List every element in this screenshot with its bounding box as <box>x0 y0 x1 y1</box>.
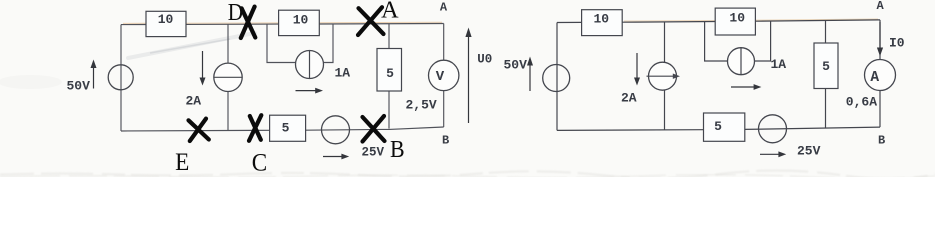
svg-text:2,5V: 2,5V <box>406 98 437 113</box>
svg-text:1A: 1A <box>335 66 351 81</box>
svg-text:10: 10 <box>158 12 174 27</box>
svg-text:D: D <box>228 0 243 26</box>
svg-text:50V: 50V <box>67 79 91 94</box>
svg-text:5: 5 <box>386 66 394 81</box>
svg-text:A: A <box>381 0 399 23</box>
svg-text:V: V <box>436 69 445 85</box>
svg-text:2A: 2A <box>621 91 637 106</box>
svg-text:0,6A: 0,6A <box>846 95 877 110</box>
svg-text:50V: 50V <box>504 58 528 73</box>
svg-text:2A: 2A <box>186 94 202 109</box>
svg-text:B: B <box>878 133 885 147</box>
svg-text:A: A <box>877 0 885 13</box>
svg-text:B: B <box>442 134 449 148</box>
svg-text:10: 10 <box>729 10 745 25</box>
svg-text:I0: I0 <box>889 36 905 51</box>
svg-text:5: 5 <box>822 59 830 74</box>
svg-text:10: 10 <box>293 13 309 28</box>
svg-text:B: B <box>390 136 405 163</box>
svg-text:5: 5 <box>282 121 290 136</box>
svg-text:5: 5 <box>714 119 722 134</box>
svg-text:25V: 25V <box>797 144 821 159</box>
svg-text:A: A <box>870 70 879 86</box>
svg-text:1A: 1A <box>771 57 787 72</box>
svg-text:25V: 25V <box>362 146 385 160</box>
svg-text:C: C <box>252 149 267 176</box>
svg-text:10: 10 <box>593 12 609 27</box>
svg-text:A: A <box>440 1 448 15</box>
svg-text:E: E <box>175 149 189 176</box>
svg-text:U0: U0 <box>477 52 492 66</box>
